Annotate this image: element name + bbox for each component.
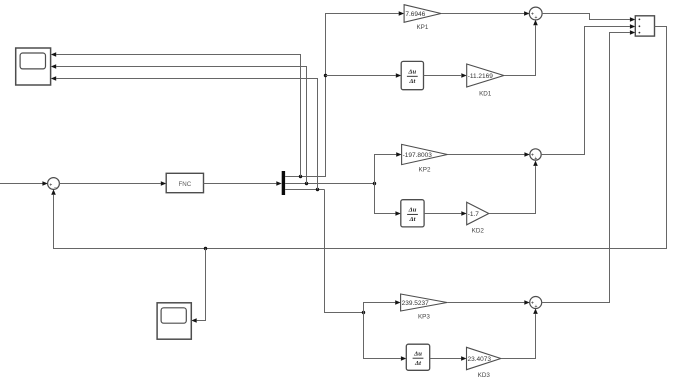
svg-text:FNC: FNC	[179, 181, 192, 188]
wire to KP2 input	[375, 152, 402, 183]
svg-text:7.6946: 7.6946	[405, 11, 425, 18]
svg-text:23.4073: 23.4073	[468, 356, 492, 363]
wire input to Sum1	[0, 181, 48, 186]
svg-text:KD2: KD2	[472, 228, 485, 235]
gain KP1 value 7.6946	[404, 5, 441, 31]
svg-text:−: −	[54, 186, 57, 192]
wire KP3 to Sum4	[447, 300, 530, 305]
wire to Difference3 input	[364, 313, 407, 361]
svg-text:KD3: KD3	[478, 372, 491, 379]
wire to Scope1 input 2	[51, 64, 307, 183]
sum block Sum4	[530, 297, 542, 311]
wire to Scope1 input 3	[51, 76, 318, 189]
wire Sum2 to Mux input 1	[542, 14, 635, 22]
wire feedback to Scope2	[191, 249, 205, 323]
sum block Sum3	[530, 149, 541, 162]
wire Difference1 to KD1	[424, 73, 467, 78]
wire demux out3	[285, 189, 324, 191]
wire KD2 up to Sum3	[489, 161, 538, 214]
wire Sum1 to FNC	[59, 181, 166, 186]
demux Demux1	[282, 171, 285, 195]
wire KP1 to Sum2	[441, 11, 530, 16]
gain KD3 value 23.4073	[467, 347, 501, 379]
subsystem FNC	[166, 173, 203, 192]
wire to Difference2 input	[375, 184, 401, 216]
wire Sum3 to Mux input 2	[541, 24, 635, 154]
junction on KP1 feed for KD1 branch	[324, 74, 327, 77]
difference block Difference3	[406, 344, 429, 370]
difference block Difference2	[401, 200, 424, 227]
wire to Scope1 input 1	[51, 52, 301, 176]
svg-text:Δt: Δt	[409, 216, 416, 223]
svg-text:+: +	[535, 15, 538, 21]
svg-text:+: +	[535, 304, 538, 310]
wire FNC to Demux	[204, 181, 282, 186]
junction node for KP3/KD3 feed	[362, 311, 365, 314]
wire demux out2	[285, 183, 374, 185]
wire KD1 up to Sum2	[504, 20, 538, 76]
wire Difference3 to KD3	[430, 356, 467, 361]
wire branch to Difference1	[326, 73, 402, 78]
svg-text:KP3: KP3	[418, 313, 430, 320]
gain KD2 value -1.7	[467, 202, 489, 234]
junction on demux out1	[299, 175, 302, 178]
wire to KP3 input	[364, 300, 401, 312]
svg-text:-1.7: -1.7	[468, 211, 480, 218]
svg-text:Δu: Δu	[408, 207, 417, 214]
wire Mux output feedback loop	[51, 27, 666, 249]
svg-text:+: +	[534, 156, 537, 162]
wire demux out3 down to third row	[325, 190, 364, 313]
sum block Sum2	[529, 7, 542, 21]
wire KD3 up to Sum4	[501, 309, 538, 359]
svg-text:+: +	[49, 182, 52, 188]
svg-text:Δt: Δt	[414, 360, 421, 367]
wire Difference2 to KD2	[424, 211, 467, 216]
wire Sum4 up to Mux input 3	[542, 30, 636, 302]
svg-text:KP1: KP1	[416, 24, 428, 31]
mux Mux1	[635, 16, 654, 36]
junction on demux out2	[305, 182, 308, 185]
gain KD1 value -11.2169	[467, 64, 504, 97]
scope Scope2	[157, 303, 191, 339]
svg-text:239.5237: 239.5237	[402, 300, 429, 307]
gain KP2 value -197.8003	[402, 144, 448, 173]
difference block Difference1	[401, 61, 423, 89]
svg-text:-197.8003: -197.8003	[403, 152, 433, 159]
gain KP3 value 239.5237	[401, 294, 448, 320]
wire demux out1 to KP1 input	[285, 11, 404, 176]
wire KP2 to Sum3	[447, 152, 529, 157]
svg-text:-11.2169: -11.2169	[468, 73, 494, 80]
junction on feedback for Scope2	[204, 247, 207, 250]
svg-text:Δu: Δu	[413, 350, 422, 357]
svg-text:Δt: Δt	[408, 78, 415, 85]
junction on demux out3	[316, 188, 319, 191]
scope Scope1	[16, 48, 51, 85]
svg-text:KD1: KD1	[479, 90, 492, 97]
svg-text:KP2: KP2	[419, 166, 431, 173]
svg-text:Δu: Δu	[407, 69, 416, 76]
sum block Sum1	[48, 178, 60, 192]
junction node for KP2/KD2 feed	[373, 182, 376, 185]
